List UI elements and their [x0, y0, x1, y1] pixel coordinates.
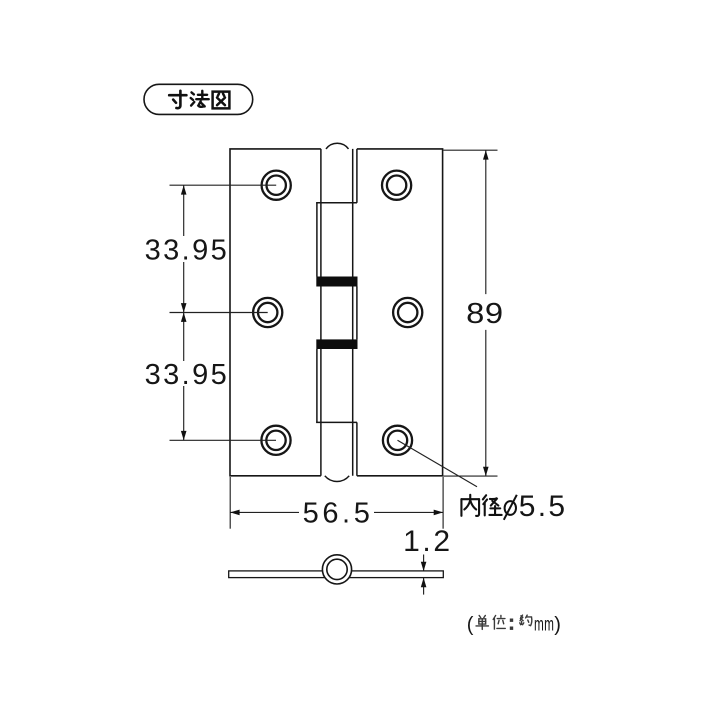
arrowhead 89 bottom — [483, 467, 489, 476]
arrowhead 56.5 left — [230, 510, 239, 516]
screw hole top-left — [262, 171, 291, 200]
side view pin inner circle — [327, 559, 347, 579]
unit kanji YAKU (approx) — [520, 615, 532, 626]
knuckle joint line lower — [316, 421, 357, 423]
phi symbol loop — [505, 501, 516, 515]
label kanji KEI (diameter) — [483, 495, 502, 515]
dimension line 1.2 lower — [423, 578, 425, 595]
dimension line 33.95 lower — [183, 313, 185, 362]
side view leaf bar — [229, 571, 444, 578]
knuckle 5 outer edge — [356, 422, 358, 475]
extension line top edge — [443, 149, 497, 151]
arrowhead 89 top — [483, 150, 489, 159]
arrowhead 33.95 lower top — [181, 313, 187, 322]
leader line inner diameter — [398, 440, 478, 487]
unit kanji I (rank) — [493, 615, 505, 629]
unit fullwidth colon — [510, 619, 513, 630]
knuckle 2 outer edge — [316, 203, 318, 277]
svg-text:33.95: 33.95 — [145, 359, 230, 391]
svg-text:mm: mm — [534, 615, 554, 635]
knuckle 3 outer edge — [356, 287, 358, 340]
arrowhead 56.5 right — [434, 510, 443, 516]
washer band lower — [316, 339, 357, 349]
svg-text:33.95: 33.95 — [145, 235, 230, 267]
arrowhead 1.2 lower — [421, 578, 427, 587]
title kanji SUN (dimension) — [169, 91, 186, 108]
arrowhead 33.95 upper top — [181, 185, 187, 194]
knuckle 1 outer edge — [356, 149, 358, 203]
barrel left long edge — [320, 149, 322, 476]
washer band upper — [316, 277, 357, 287]
unit note parentheses and mm — [467, 614, 561, 636]
hinge right leaf outline — [357, 149, 443, 476]
dimension line 33.95 upper — [183, 185, 185, 236]
extension line bottom edge — [443, 475, 497, 477]
svg-text:5.5: 5.5 — [519, 490, 568, 523]
dimension line 1.2 upper — [423, 555, 425, 572]
knuckle 4 outer edge — [316, 349, 318, 422]
svg-text:1.2: 1.2 — [403, 525, 453, 558]
title kanji HOU (method) — [191, 91, 209, 107]
dimension line 89 — [485, 150, 487, 294]
pin head dome top — [326, 143, 349, 149]
screw hole middle-left — [253, 298, 282, 327]
svg-text:89: 89 — [466, 297, 504, 330]
extension line width right — [442, 477, 444, 529]
extension line width left — [229, 477, 231, 529]
unit kanji TAN (unit) — [476, 615, 488, 629]
hinge left leaf outline — [230, 149, 321, 476]
screw hole bottom-right — [383, 426, 412, 455]
screw hole middle-right — [393, 298, 422, 327]
screw hole bottom-left — [261, 426, 290, 455]
phi symbol slash — [504, 495, 517, 520]
extension line hole row 1 — [170, 184, 277, 186]
svg-text:(: ( — [467, 614, 474, 636]
label kanji NAI (inner) — [461, 495, 479, 516]
svg-text:): ) — [554, 614, 561, 636]
side view knuckle outer circle — [322, 555, 351, 584]
pin head dome bottom — [325, 476, 349, 482]
title kanji ZU (drawing) — [213, 92, 230, 109]
arrowhead 1.2 upper — [421, 562, 427, 571]
screw hole top-right — [382, 171, 411, 200]
arrowhead 33.95 upper bottom — [181, 303, 187, 312]
extension line hole row 3 — [170, 439, 277, 441]
barrel right long edge — [352, 149, 354, 476]
title pill frame — [144, 84, 253, 114]
arrowhead 33.95 lower bottom — [181, 431, 187, 440]
dimension line 56.5 — [230, 511, 299, 513]
extension line hole row 2 — [170, 312, 268, 314]
knuckle joint line upper — [316, 202, 357, 204]
svg-text:56.5: 56.5 — [303, 498, 374, 530]
